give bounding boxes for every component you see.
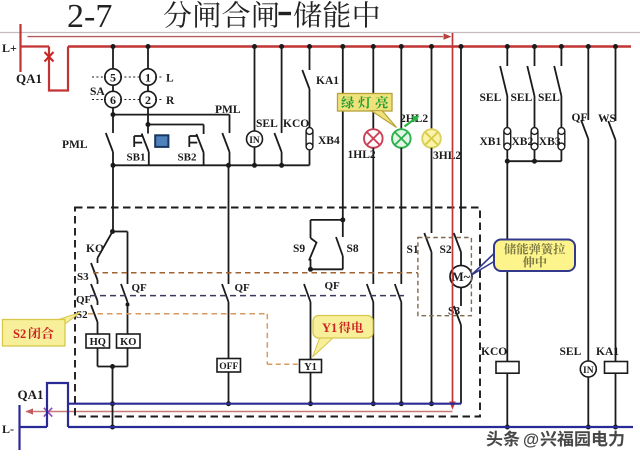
label KA1 top bbox=[316, 75, 339, 87]
indicator blue rect bbox=[155, 135, 168, 147]
label SEL 2 bbox=[511, 92, 533, 104]
fuse XB4 bbox=[306, 128, 313, 150]
fuse XB1 bbox=[504, 128, 511, 150]
dashed linkage S2 orange bbox=[88, 314, 267, 365]
label S3 bbox=[77, 271, 89, 283]
label 2HL2 bbox=[400, 113, 428, 125]
wire row PML feed bbox=[113, 114, 230, 116]
svg-text:QF: QF bbox=[132, 282, 148, 294]
selector SA contact 1 bbox=[140, 69, 156, 85]
label SB1 bbox=[127, 152, 146, 164]
wire L- lower bus bbox=[68, 426, 633, 428]
wire red bus main bbox=[68, 45, 631, 47]
wire KCO coil drop bbox=[506, 161, 508, 361]
dotted linkage SA row R bbox=[92, 99, 163, 101]
dashed linkage QF navy bbox=[90, 295, 404, 297]
fuse XB2 bbox=[531, 128, 538, 150]
svg-text:XB2: XB2 bbox=[512, 136, 534, 148]
coil Y1 bbox=[300, 360, 322, 373]
label QA1 bottom bbox=[18, 387, 44, 402]
svg-text:HQ: HQ bbox=[90, 337, 106, 348]
label S9 bbox=[293, 243, 305, 255]
wire PML-right down bbox=[228, 165, 230, 284]
wire IN to bottom bbox=[252, 147, 257, 168]
contact S2 motor bbox=[454, 233, 461, 266]
node L- terminal lead bbox=[18, 405, 20, 450]
svg-text:1: 1 bbox=[145, 70, 151, 84]
svg-text:WS: WS bbox=[598, 113, 616, 125]
contact PML right bbox=[222, 115, 231, 168]
contact SEL 1 bbox=[500, 44, 510, 128]
svg-text:S2: S2 bbox=[440, 244, 452, 256]
coil OFF bbox=[217, 359, 241, 373]
svg-text:6: 6 bbox=[110, 93, 116, 107]
wire SEL drop bbox=[252, 44, 257, 131]
contact QF mid bbox=[121, 284, 130, 334]
svg-text:L-: L- bbox=[2, 422, 14, 436]
svg-text:S8: S8 bbox=[347, 243, 359, 255]
svg-text:QF: QF bbox=[325, 280, 341, 292]
callout lv-deng-liang box bbox=[338, 94, 397, 128]
label PML right bbox=[215, 104, 241, 116]
contact S8 bbox=[311, 220, 343, 269]
label KCO top bbox=[283, 118, 309, 130]
pushbutton SB2 bbox=[189, 125, 203, 166]
coil KA1 bbox=[605, 362, 628, 374]
pushbutton SB1 bbox=[134, 125, 149, 166]
label S2 left bbox=[76, 309, 88, 321]
svg-text:OFF: OFF bbox=[219, 362, 238, 372]
contact S9 bbox=[308, 220, 317, 272]
label WS bbox=[598, 113, 616, 125]
contact S3 motor bbox=[454, 288, 461, 404]
contact S3 bbox=[91, 258, 98, 284]
label L+ bbox=[2, 41, 17, 55]
label KCO coil bbox=[481, 346, 507, 358]
label QA1 top bbox=[16, 71, 42, 86]
label SB2 bbox=[178, 152, 197, 164]
label QF mid bbox=[132, 282, 148, 294]
svg-text:PML: PML bbox=[215, 104, 241, 116]
contact KO bbox=[98, 232, 113, 259]
contact QF left bbox=[91, 284, 98, 305]
coil HQ bbox=[86, 334, 110, 348]
lamp 1HL2 red bbox=[364, 129, 383, 148]
dotted linkage SA row L bbox=[92, 76, 163, 78]
wire lamp-row bottom bus bbox=[113, 150, 310, 166]
contact KA1 top bbox=[302, 44, 312, 128]
wire KA1 coil to L- bbox=[613, 373, 618, 429]
wire col S2M drop bbox=[459, 44, 464, 233]
svg-text:1HL2: 1HL2 bbox=[348, 149, 376, 161]
svg-text:SB2: SB2 bbox=[178, 152, 197, 164]
label SEL 1 bbox=[480, 92, 502, 104]
svg-text:PML: PML bbox=[62, 139, 88, 151]
svg-text:KA1: KA1 bbox=[316, 75, 339, 87]
label SEL 3 bbox=[538, 92, 560, 104]
label SA bbox=[90, 86, 105, 98]
svg-text:SEL: SEL bbox=[480, 92, 502, 104]
contact QF center bbox=[222, 284, 229, 359]
coil KCO bbox=[496, 362, 519, 374]
svg-text:Y1: Y1 bbox=[304, 362, 317, 373]
label 1HL2 bbox=[348, 149, 376, 161]
contact S1 bbox=[424, 233, 434, 406]
label XB1 bbox=[480, 136, 502, 148]
svg-text:SB1: SB1 bbox=[127, 152, 146, 164]
label R bbox=[166, 95, 175, 107]
svg-text:M~: M~ bbox=[452, 270, 471, 284]
svg-text:QA1: QA1 bbox=[18, 387, 44, 402]
dashed enclosure box bbox=[75, 208, 480, 417]
label XB3 bbox=[539, 136, 561, 148]
motor M bbox=[450, 266, 472, 288]
contact KCO bbox=[274, 44, 284, 168]
svg-text:QF: QF bbox=[76, 294, 92, 306]
dashed stub to Y1 orange bbox=[267, 363, 298, 365]
callout chuneng tail bbox=[472, 254, 495, 276]
wire col 1HL2 drop bbox=[371, 44, 376, 129]
wire HQ-KO join bbox=[98, 364, 128, 369]
wire 1HL2 down bbox=[372, 148, 374, 284]
svg-text:3HL2: 3HL2 bbox=[433, 150, 461, 162]
lamp 3HL2 yellow bbox=[422, 129, 441, 148]
x-mark on QA1 red bbox=[45, 52, 54, 62]
dashed linkage S3-S9 brown bbox=[93, 272, 418, 274]
coil KO bbox=[117, 334, 141, 348]
contact S2 left bbox=[91, 305, 98, 334]
selector SA contact 5 bbox=[105, 69, 121, 85]
svg-text:KA1: KA1 bbox=[596, 346, 619, 358]
label L- bbox=[2, 422, 14, 436]
label SEL top-left bbox=[256, 118, 278, 130]
breaker QA1 blue notch bbox=[47, 383, 68, 427]
svg-text:KO: KO bbox=[120, 337, 136, 348]
indicator IN SEL bbox=[247, 131, 263, 147]
svg-text:KCO: KCO bbox=[283, 118, 309, 130]
contact QF lamp2 bbox=[395, 284, 404, 406]
selector SA contact 2 bbox=[140, 91, 156, 107]
contact WS bbox=[608, 44, 618, 362]
wire SA col1 drop bbox=[146, 44, 151, 92]
svg-text:QF: QF bbox=[235, 282, 251, 294]
title text 2-7 bbox=[67, 0, 112, 35]
svg-text:XB3: XB3 bbox=[539, 136, 561, 148]
label S1 bbox=[407, 244, 419, 256]
title underline bbox=[0, 32, 640, 34]
svg-text:@: @ bbox=[523, 431, 539, 449]
label QF Y1-branch bbox=[325, 280, 341, 292]
label KO bbox=[86, 243, 104, 255]
lamp 2HL2 green bbox=[392, 129, 411, 148]
fuse XB3 bbox=[558, 128, 565, 150]
arrowhead left on pink trace bbox=[26, 408, 34, 414]
selector SA contact 6 bbox=[105, 91, 121, 107]
wire col 343 drop bbox=[340, 44, 345, 220]
callout S2-bihe bbox=[3, 313, 81, 347]
label S2 motor bbox=[440, 244, 452, 256]
svg-text:S2: S2 bbox=[13, 327, 26, 341]
contact QF Y1-branch bbox=[304, 284, 311, 360]
svg-text:L+: L+ bbox=[2, 41, 17, 55]
svg-text:SEL: SEL bbox=[560, 346, 582, 358]
svg-text:SEL: SEL bbox=[256, 118, 278, 130]
wire XB join bbox=[505, 150, 562, 164]
wire OFF to L- bbox=[226, 372, 231, 406]
svg-text:IN: IN bbox=[249, 136, 260, 146]
wire col 2HL2 drop bbox=[399, 44, 404, 129]
label XB4 bbox=[318, 135, 340, 147]
contact QF right bbox=[581, 44, 591, 361]
wire red trace vertical bbox=[452, 47, 454, 403]
label PML left bbox=[62, 139, 88, 151]
svg-text:KCO: KCO bbox=[481, 346, 507, 358]
label SEL right coil bbox=[560, 346, 582, 358]
svg-text:L: L bbox=[166, 73, 174, 85]
indicator IN SEL right bbox=[580, 361, 596, 377]
svg-text:2-7: 2-7 bbox=[67, 0, 112, 35]
contact SEL 3 bbox=[554, 44, 564, 128]
svg-text:S3: S3 bbox=[77, 271, 89, 283]
svg-text:Y1: Y1 bbox=[322, 321, 337, 335]
wire PML-left to junction bbox=[110, 165, 115, 234]
svg-text:S1: S1 bbox=[407, 244, 419, 256]
svg-text:SEL: SEL bbox=[538, 92, 560, 104]
title text fen-zha-he-zha chu-neng-zhong bbox=[164, 1, 379, 28]
wire join to L- buses bbox=[110, 367, 115, 430]
wire SA col5 drop bbox=[111, 44, 116, 92]
green arrow at 2HL2 bbox=[405, 116, 420, 127]
svg-text:XB1: XB1 bbox=[480, 136, 502, 148]
node L+ terminal lead bbox=[19, 24, 21, 72]
wire L- upper bus bbox=[68, 403, 461, 405]
wire Y1 to L- bbox=[308, 373, 313, 407]
wire col 3HL2 drop bbox=[429, 44, 434, 129]
contact SEL 2 bbox=[527, 44, 537, 128]
wire KO down bbox=[127, 348, 129, 367]
label S3 motor bbox=[448, 306, 460, 318]
wire thin red trace top bbox=[28, 36, 444, 38]
svg-text:XB4: XB4 bbox=[318, 135, 340, 147]
dashed inner box bbox=[418, 238, 472, 316]
wire row SB feed bbox=[148, 124, 204, 126]
watermark toutiao bbox=[487, 431, 624, 449]
svg-text:2: 2 bbox=[145, 93, 151, 107]
svg-text:S9: S9 bbox=[293, 243, 305, 255]
callout Y1-dedian bbox=[313, 316, 374, 358]
wire col343 to S9S8 split bbox=[311, 217, 346, 222]
arrowhead down on red vertical bbox=[449, 402, 455, 410]
svg-text:QF: QF bbox=[572, 112, 588, 124]
svg-text:S2: S2 bbox=[76, 309, 88, 321]
contact PML left bbox=[106, 115, 116, 168]
wire pink return trace bottom bbox=[26, 411, 453, 413]
wire HQ down bbox=[97, 348, 99, 367]
x-mark on QA1 blue bbox=[44, 408, 52, 417]
label QF right bbox=[572, 112, 588, 124]
arrowhead right on thin red trace bbox=[444, 33, 452, 39]
wire red bus to QA1 bbox=[21, 45, 50, 47]
label XB2 bbox=[512, 136, 534, 148]
wire 3HL2 down bbox=[431, 148, 433, 233]
svg-text:SEL: SEL bbox=[511, 92, 533, 104]
svg-text:KO: KO bbox=[86, 243, 104, 255]
label L bbox=[166, 73, 174, 85]
wire KCO coil to L- bbox=[505, 373, 510, 429]
wire col5 to row bbox=[111, 108, 116, 117]
svg-text:R: R bbox=[166, 95, 175, 107]
breaker QA1 red notch bbox=[49, 47, 68, 91]
wire L- lower bus left bbox=[20, 426, 48, 428]
wire IN right to L- bbox=[586, 377, 591, 430]
label QF center bbox=[235, 282, 251, 294]
wire col2 to row bbox=[146, 108, 151, 127]
callout chuneng box bbox=[494, 240, 575, 272]
wire 2HL2 down bbox=[400, 148, 402, 284]
wire junction to QF branch bbox=[113, 232, 128, 285]
label QF left bbox=[76, 294, 92, 306]
label KA1 coil bbox=[596, 346, 619, 358]
wire red trace vertical top stub bbox=[452, 33, 454, 47]
label S8 bbox=[347, 243, 359, 255]
svg-text:IN: IN bbox=[583, 366, 594, 376]
svg-text:SA: SA bbox=[90, 86, 105, 98]
svg-text:QA1: QA1 bbox=[16, 71, 42, 86]
contact QF lamp1 bbox=[367, 284, 376, 406]
svg-text:5: 5 bbox=[110, 70, 116, 84]
label 3HL2 bbox=[433, 150, 461, 162]
